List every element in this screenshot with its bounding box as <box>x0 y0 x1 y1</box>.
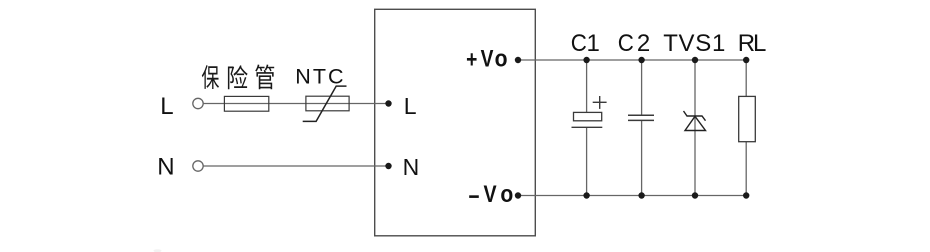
svg-text:N: N <box>403 154 420 180</box>
svg-text:L: L <box>160 93 173 120</box>
svg-text:TVS1: TVS1 <box>663 30 726 57</box>
svg-text:o: o <box>500 181 513 208</box>
svg-text:1: 1 <box>587 30 600 57</box>
svg-text:2: 2 <box>637 30 650 57</box>
svg-text:o: o <box>495 45 508 72</box>
svg-text:+: + <box>466 46 477 74</box>
svg-text:V: V <box>484 180 497 207</box>
svg-text:L: L <box>404 93 417 119</box>
svg-text:C: C <box>618 29 634 56</box>
svg-text:NTC: NTC <box>295 65 345 89</box>
svg-text:V: V <box>481 44 494 72</box>
svg-text:C: C <box>571 29 587 56</box>
svg-text:N: N <box>157 154 174 181</box>
svg-text:−: − <box>468 182 479 210</box>
svg-text:L: L <box>753 30 766 57</box>
